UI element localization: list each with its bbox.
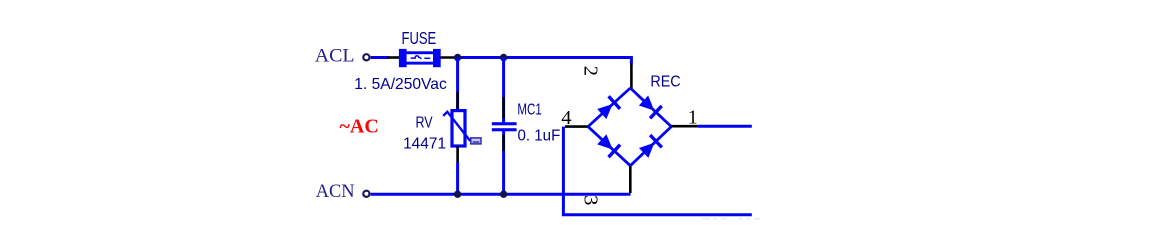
wire varistor top pin (black) (456, 92, 459, 110)
bridge rectifier REC diode L-T (588, 88, 630, 127)
svg-text:3: 3 (580, 195, 602, 205)
wire top net ACL (blue) (456, 58, 631, 65)
varistor RV diagonal stroke (443, 112, 470, 141)
svg-text:14471: 14471 (403, 135, 446, 152)
wire bridge pin 1 lead (black) (671, 125, 698, 128)
faint artifact dashes under DC minus line (702, 218, 760, 220)
svg-text:RV: RV (416, 113, 434, 131)
varistor thermal element box (471, 138, 481, 144)
wire varistor bottom pin (black) (456, 146, 459, 162)
wire capacitor branch upper (blue) (502, 58, 505, 123)
wire DC plus output (blue) (698, 125, 752, 128)
wire ACN net (blue) (371, 193, 631, 196)
svg-text:ACL: ACL (315, 46, 355, 66)
svg-text:1: 1 (688, 107, 698, 128)
wire bridge pin 3 lead (black) (629, 166, 632, 193)
wire DC minus: pin4 down and right (blue) (563, 127, 751, 215)
svg-text:ACN: ACN (316, 181, 355, 202)
wire capacitor branch lower (blue) (502, 131, 505, 194)
wire varistor branch lower (blue) (456, 162, 459, 194)
wire fuse right pin (black) (440, 56, 457, 59)
wire fuse left pin (black) (387, 56, 400, 59)
junction dot top-right (500, 54, 507, 61)
svg-text:4: 4 (561, 107, 571, 129)
wire capacitor top pin (black) (502, 97, 505, 119)
svg-text:FUSE: FUSE (402, 29, 437, 48)
junction dot bottom-right (500, 191, 507, 198)
svg-text:1. 5A/250Vac: 1. 5A/250Vac (354, 76, 447, 93)
node ACN terminal (363, 191, 369, 197)
wire varistor branch upper (blue) (456, 58, 459, 111)
wire capacitor bottom pin (black) (502, 135, 505, 151)
bridge rectifier REC diode T-R (630, 88, 671, 127)
svg-text:~AC: ~AC (340, 116, 379, 138)
capacitor MC1 bottom plate (492, 128, 517, 131)
node ACL terminal (363, 54, 369, 60)
wire bridge pin 4 lead (black) (565, 125, 589, 128)
junction dot top-left (454, 54, 461, 61)
svg-text:2: 2 (579, 66, 601, 76)
bridge rectifier REC diode B-R (630, 127, 671, 166)
svg-text:0. 1uF: 0. 1uF (518, 127, 561, 144)
junction dot bottom-left (454, 191, 461, 198)
svg-text:MC1: MC1 (517, 101, 541, 118)
wire bridge pin 2 lead (black) (630, 64, 633, 89)
varistor RV body (452, 111, 465, 146)
bridge rectifier REC diode L-B (588, 127, 630, 166)
capacitor MC1 top plate (492, 122, 517, 125)
wire ACL terminal to fuse (blue part) (371, 56, 389, 59)
svg-text:REC: REC (650, 73, 680, 91)
fuse FUSE body (399, 49, 441, 67)
